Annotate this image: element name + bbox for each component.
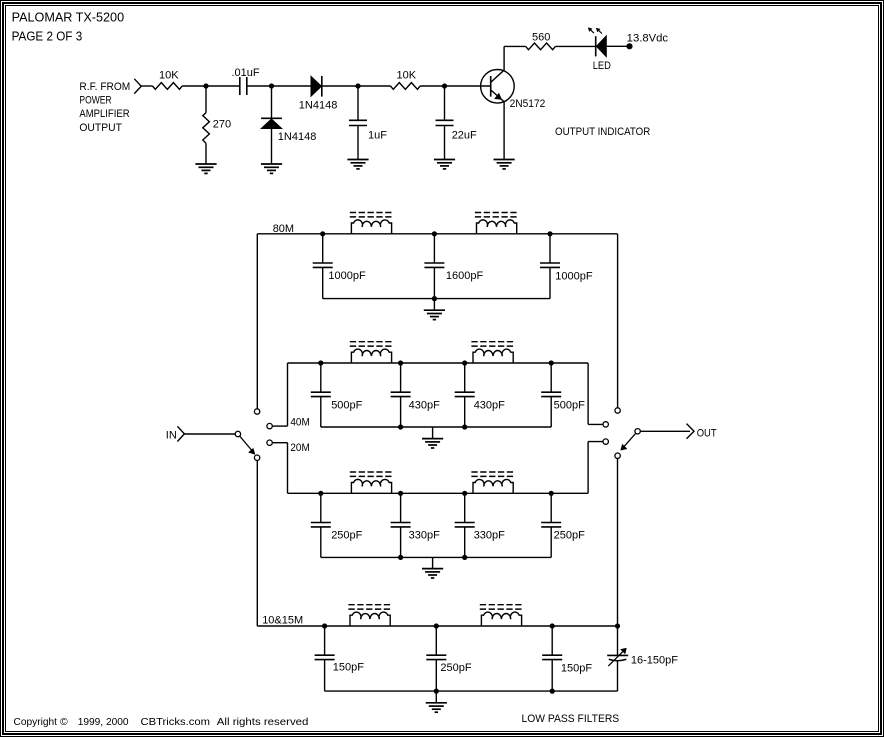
core of L3 (40M) — [350, 342, 394, 346]
wire node C down to C2 — [357, 86, 359, 120]
node C9 430pF top junction — [462, 360, 467, 365]
wire left riser from 80M rail to switch — [256, 234, 258, 409]
inductor L6 (20M) — [473, 479, 513, 493]
node C8 430pF bottom junction — [398, 424, 403, 429]
wire 20M left riser — [287, 443, 289, 494]
wire C3 to ground — [444, 126, 446, 160]
wire C6 1000pF bottom lead — [549, 267, 551, 298]
svg-text:1N4148: 1N4148 — [278, 131, 317, 143]
terminal 13.8Vdc — [626, 43, 632, 49]
wire C10 500pF bottom lead — [550, 397, 552, 427]
node C14 250pF top junction — [549, 491, 554, 496]
switch SW1 10&15M contact — [254, 455, 259, 460]
LED D3 — [596, 36, 607, 57]
wire 20M ground stub — [432, 557, 434, 568]
switch SW2 20M contact — [603, 439, 608, 444]
switch SW2 80M contact — [615, 408, 620, 413]
capacitor C6 1000pF — [540, 263, 560, 267]
switch SW1 common contact — [235, 431, 240, 436]
wire D1 to node C — [322, 85, 358, 87]
switch SW1 40M contact — [267, 423, 272, 428]
inductor L4 (40M) — [473, 349, 513, 363]
node A junction — [203, 83, 208, 88]
node C17 150pF bottom junction — [550, 689, 555, 694]
node C13 330pF top junction — [462, 491, 467, 496]
svg-text:10K: 10K — [159, 70, 179, 82]
wire right riser from switch to 10&15M rail — [617, 458, 619, 626]
node C10 500pF top junction — [549, 360, 554, 365]
svg-text:150pF: 150pF — [333, 662, 364, 674]
wire 40M bottom rail — [321, 426, 551, 428]
capacitor C3 22uF — [436, 120, 454, 125]
inductor L5 (20M) — [351, 479, 391, 493]
wire 80M ground stub — [433, 299, 435, 311]
wire C2 to ground — [357, 126, 359, 160]
capacitor C9 430pF — [455, 392, 475, 396]
svg-text:PAGE 2 OF 3: PAGE 2 OF 3 — [12, 29, 83, 43]
capacitor C2 1uF — [349, 120, 367, 125]
wire node B to D1 — [272, 85, 312, 87]
core of L4 (40M) — [471, 342, 515, 346]
wire 40M ground stub — [432, 427, 434, 439]
svg-text:©: © — [60, 716, 68, 728]
wire right riser from 80M rail to switch — [617, 234, 619, 408]
core of L5 (20M) — [350, 472, 394, 476]
svg-text:250pF: 250pF — [440, 662, 471, 674]
svg-text:OUT: OUT — [697, 427, 717, 439]
wire R4 to LED — [555, 45, 595, 47]
wire C1 to node B — [247, 85, 272, 87]
wire C8 430pF top lead — [400, 363, 402, 392]
capacitor C15 150pF — [315, 655, 335, 659]
wire LED to supply terminal — [606, 45, 627, 47]
capacitor C12 330pF — [391, 523, 411, 527]
wire C6 1000pF top lead — [549, 234, 551, 263]
diode D2 1N4148 shunt — [261, 118, 282, 128]
node C16 250pF bottom junction — [434, 689, 439, 694]
switch SW2 common contact — [635, 429, 640, 434]
svg-text:OUTPUT INDICATOR: OUTPUT INDICATOR — [555, 126, 650, 138]
wire switch common to OUT — [640, 430, 690, 432]
node C16 250pF top junction — [434, 623, 439, 628]
wire 80M rail — [257, 233, 617, 235]
svg-text:560: 560 — [532, 31, 550, 43]
node C5 1600pF top junction — [432, 231, 437, 236]
wire 20M right riser — [587, 442, 589, 494]
inductor L8 (10&15M) — [481, 612, 521, 626]
wire C14 250pF bottom lead — [550, 527, 552, 558]
svg-text:.01uF: .01uF — [232, 67, 260, 79]
svg-text:PALOMAR TX-5200: PALOMAR TX-5200 — [12, 11, 125, 25]
wire 40M right riser — [587, 363, 589, 424]
capacitor C11 250pF — [311, 523, 331, 527]
svg-text:1N4148: 1N4148 — [299, 100, 338, 112]
wire 10&15M bottom rail — [325, 690, 618, 692]
ground G2 under D2 — [261, 164, 282, 173]
output connector chevron OUT — [687, 424, 695, 439]
wire left riser from switch to 10&15M rail — [256, 460, 258, 626]
wire IN to switch common — [184, 433, 235, 435]
svg-text:270: 270 — [213, 119, 231, 131]
switch SW2 40M contact — [603, 422, 608, 427]
wire C4 1000pF top lead — [322, 234, 324, 263]
wire collector to R4 — [504, 45, 526, 47]
svg-text:330pF: 330pF — [474, 530, 505, 542]
wire D2 to ground — [271, 129, 273, 165]
svg-text:1000pF: 1000pF — [328, 270, 366, 282]
wire 40M right contact lead — [588, 423, 608, 425]
node C7 500pF top junction — [318, 360, 323, 365]
ground G1 under R2 — [195, 164, 216, 173]
switch SW2 10&15M contact — [615, 453, 620, 458]
resistor R2 270 — [203, 113, 210, 144]
wire node D down to C3 — [444, 86, 446, 120]
svg-text:1uF: 1uF — [368, 129, 387, 141]
svg-text:POWER: POWER — [79, 94, 111, 106]
node C13 330pF bottom junction — [462, 555, 467, 560]
inductor L2 (80M) — [477, 220, 517, 234]
capacitor C14 250pF — [541, 523, 561, 527]
wire C8 430pF bottom lead — [400, 397, 402, 427]
node C17 150pF top junction — [550, 623, 555, 628]
svg-text:OUTPUT: OUTPUT — [79, 122, 122, 134]
wire C9 430pF bottom lead — [464, 397, 466, 427]
svg-text:20M: 20M — [290, 442, 309, 454]
core of L2 (80M) — [475, 213, 519, 217]
switch SW1 80M contact — [254, 409, 259, 414]
wire input to R1 — [141, 85, 152, 87]
svg-text:2N5172: 2N5172 — [510, 98, 546, 110]
wire 20M left contact lead — [272, 442, 287, 444]
wire C5 1600pF bottom lead — [433, 267, 435, 298]
svg-text:150pF: 150pF — [561, 662, 592, 674]
node C15 150pF top junction — [322, 623, 327, 628]
wire 10&15M rail — [257, 625, 617, 627]
wire C11 250pF top lead — [320, 493, 322, 522]
ground G9 of 10&15M filter — [426, 703, 447, 712]
node C5 1600pF bottom junction — [432, 296, 437, 301]
wire C9 430pF top lead — [464, 363, 466, 392]
wire R1 to node A — [182, 85, 206, 87]
ground G8 of 20M filter — [422, 569, 443, 578]
capacitor C7 500pF — [311, 392, 331, 396]
capacitor C1 .01uF — [240, 77, 247, 95]
capacitor C10 500pF — [541, 392, 561, 396]
capacitor C16 250pF — [426, 655, 446, 659]
wire 80M bottom rail — [323, 298, 550, 300]
svg-text:500pF: 500pF — [331, 400, 362, 412]
resistor R4 560 — [526, 43, 556, 50]
node C12 330pF top junction — [398, 491, 403, 496]
node C4 1000pF top junction — [320, 231, 325, 236]
svg-text:AMPLIFIER: AMPLIFIER — [79, 108, 129, 120]
ground G7 of 40M filter — [422, 439, 443, 448]
svg-text:IN: IN — [166, 429, 177, 441]
svg-text:40M: 40M — [290, 417, 309, 429]
node 10&15M variable cap junction — [615, 623, 620, 628]
node C9 430pF bottom junction — [462, 424, 467, 429]
core of L8 (10&15M) — [480, 605, 524, 609]
wire 40M left riser — [287, 363, 289, 426]
wire C7 500pF top lead — [320, 363, 322, 392]
resistor R1 10K — [153, 83, 183, 90]
svg-text:LED: LED — [593, 60, 611, 72]
wire R3 to node D — [420, 85, 444, 87]
transistor Q1 2N5172 — [481, 70, 515, 104]
wire node A to C1 — [206, 85, 239, 87]
wire node B down to D2 — [271, 86, 273, 118]
wire C17 150pF bottom lead — [551, 660, 553, 692]
wire C17 150pF top lead — [551, 626, 553, 655]
wire C14 250pF top lead — [550, 493, 552, 522]
svg-text:430pF: 430pF — [409, 400, 440, 412]
node B junction — [269, 83, 274, 88]
core of L1 (80M) — [350, 213, 394, 217]
capacitor C5 1600pF — [424, 263, 444, 267]
wire 20M right contact lead — [588, 441, 608, 443]
node C12 330pF bottom junction — [398, 555, 403, 560]
wire node A down to R2 — [205, 86, 207, 113]
input connector chevron — [134, 79, 141, 94]
wire R2 to ground — [205, 143, 207, 164]
svg-text:250pF: 250pF — [331, 530, 362, 542]
svg-text:22uF: 22uF — [452, 129, 477, 141]
node D junction — [442, 83, 447, 88]
switch SW1 20M contact — [267, 440, 272, 445]
svg-text:LOW PASS FILTERS: LOW PASS FILTERS — [522, 713, 620, 725]
switch SW2 wiper arrow — [621, 434, 636, 451]
input connector chevron IN — [177, 426, 184, 441]
core of L6 (20M) — [471, 472, 515, 476]
node C6 1000pF top junction — [547, 231, 552, 236]
wire C15 150pF top lead — [324, 626, 326, 655]
capacitor C17 150pF — [542, 655, 562, 659]
svg-text:13.8Vdc: 13.8Vdc — [627, 32, 669, 44]
svg-text:500pF: 500pF — [554, 400, 585, 412]
wire 40M rail — [288, 362, 589, 364]
wire 40M left contact lead — [272, 425, 287, 427]
ground G6 of 80M filter — [424, 310, 445, 319]
svg-text:All rights reserved: All rights reserved — [217, 716, 309, 728]
ground G4 under C3 — [434, 160, 455, 169]
ground G3 under C2 — [347, 160, 368, 169]
wire Q1 emitter to ground — [503, 102, 505, 160]
wire Q1 collector up — [503, 46, 505, 70]
node C8 430pF top junction — [398, 360, 403, 365]
wire C4 1000pF bottom lead — [322, 267, 324, 298]
svg-text:CBTricks.com: CBTricks.com — [141, 716, 211, 728]
wire C12 330pF top lead — [400, 493, 402, 522]
wire C11 250pF bottom lead — [320, 527, 322, 558]
wire 20M rail — [288, 492, 589, 494]
svg-text:Copyright: Copyright — [14, 716, 58, 728]
wire C16 250pF top lead — [435, 626, 437, 655]
svg-text:10K: 10K — [397, 70, 417, 82]
capacitor C13 330pF — [455, 523, 475, 527]
wire C10 500pF top lead — [550, 363, 552, 392]
svg-text:1000pF: 1000pF — [555, 270, 593, 282]
inductor L1 (80M) — [351, 220, 391, 234]
svg-text:330pF: 330pF — [409, 530, 440, 542]
wire node D to Q1 base — [445, 85, 491, 87]
svg-text:16-150pF: 16-150pF — [631, 655, 678, 667]
diode D1 1N4148 series — [311, 76, 322, 97]
ground G5 under Q1 emitter — [494, 160, 515, 169]
variable capacitor C18 16-150pF — [607, 626, 628, 691]
wire C13 330pF top lead — [464, 493, 466, 522]
inductor L3 (40M) — [351, 349, 391, 363]
svg-text:R.F. FROM: R.F. FROM — [79, 81, 130, 93]
LED light arrows — [588, 28, 602, 34]
svg-text:250pF: 250pF — [554, 530, 585, 542]
switch SW1 wiper arrow — [240, 436, 255, 454]
svg-text:10&15M: 10&15M — [262, 615, 303, 627]
core of L7 (10&15M) — [348, 605, 392, 609]
wire 10&15M ground stub — [435, 691, 437, 703]
svg-text:1600pF: 1600pF — [446, 270, 484, 282]
capacitor C4 1000pF — [313, 263, 333, 267]
wire C13 330pF bottom lead — [464, 527, 466, 558]
wire C5 1600pF top lead — [433, 234, 435, 263]
resistor R3 10K — [391, 83, 421, 90]
node C11 250pF top junction — [318, 491, 323, 496]
node C junction — [355, 83, 360, 88]
wire C7 500pF bottom lead — [320, 397, 322, 427]
wire C15 150pF bottom lead — [324, 660, 326, 692]
svg-text:430pF: 430pF — [474, 400, 505, 412]
wire node C to R3 — [358, 85, 391, 87]
capacitor C8 430pF — [391, 392, 411, 396]
wire C12 330pF bottom lead — [400, 527, 402, 558]
inductor L7 (10&15M) — [350, 612, 390, 626]
wire 20M bottom rail — [321, 556, 551, 558]
svg-text:1999, 2000: 1999, 2000 — [78, 716, 129, 728]
wire C16 250pF bottom lead — [435, 660, 437, 692]
